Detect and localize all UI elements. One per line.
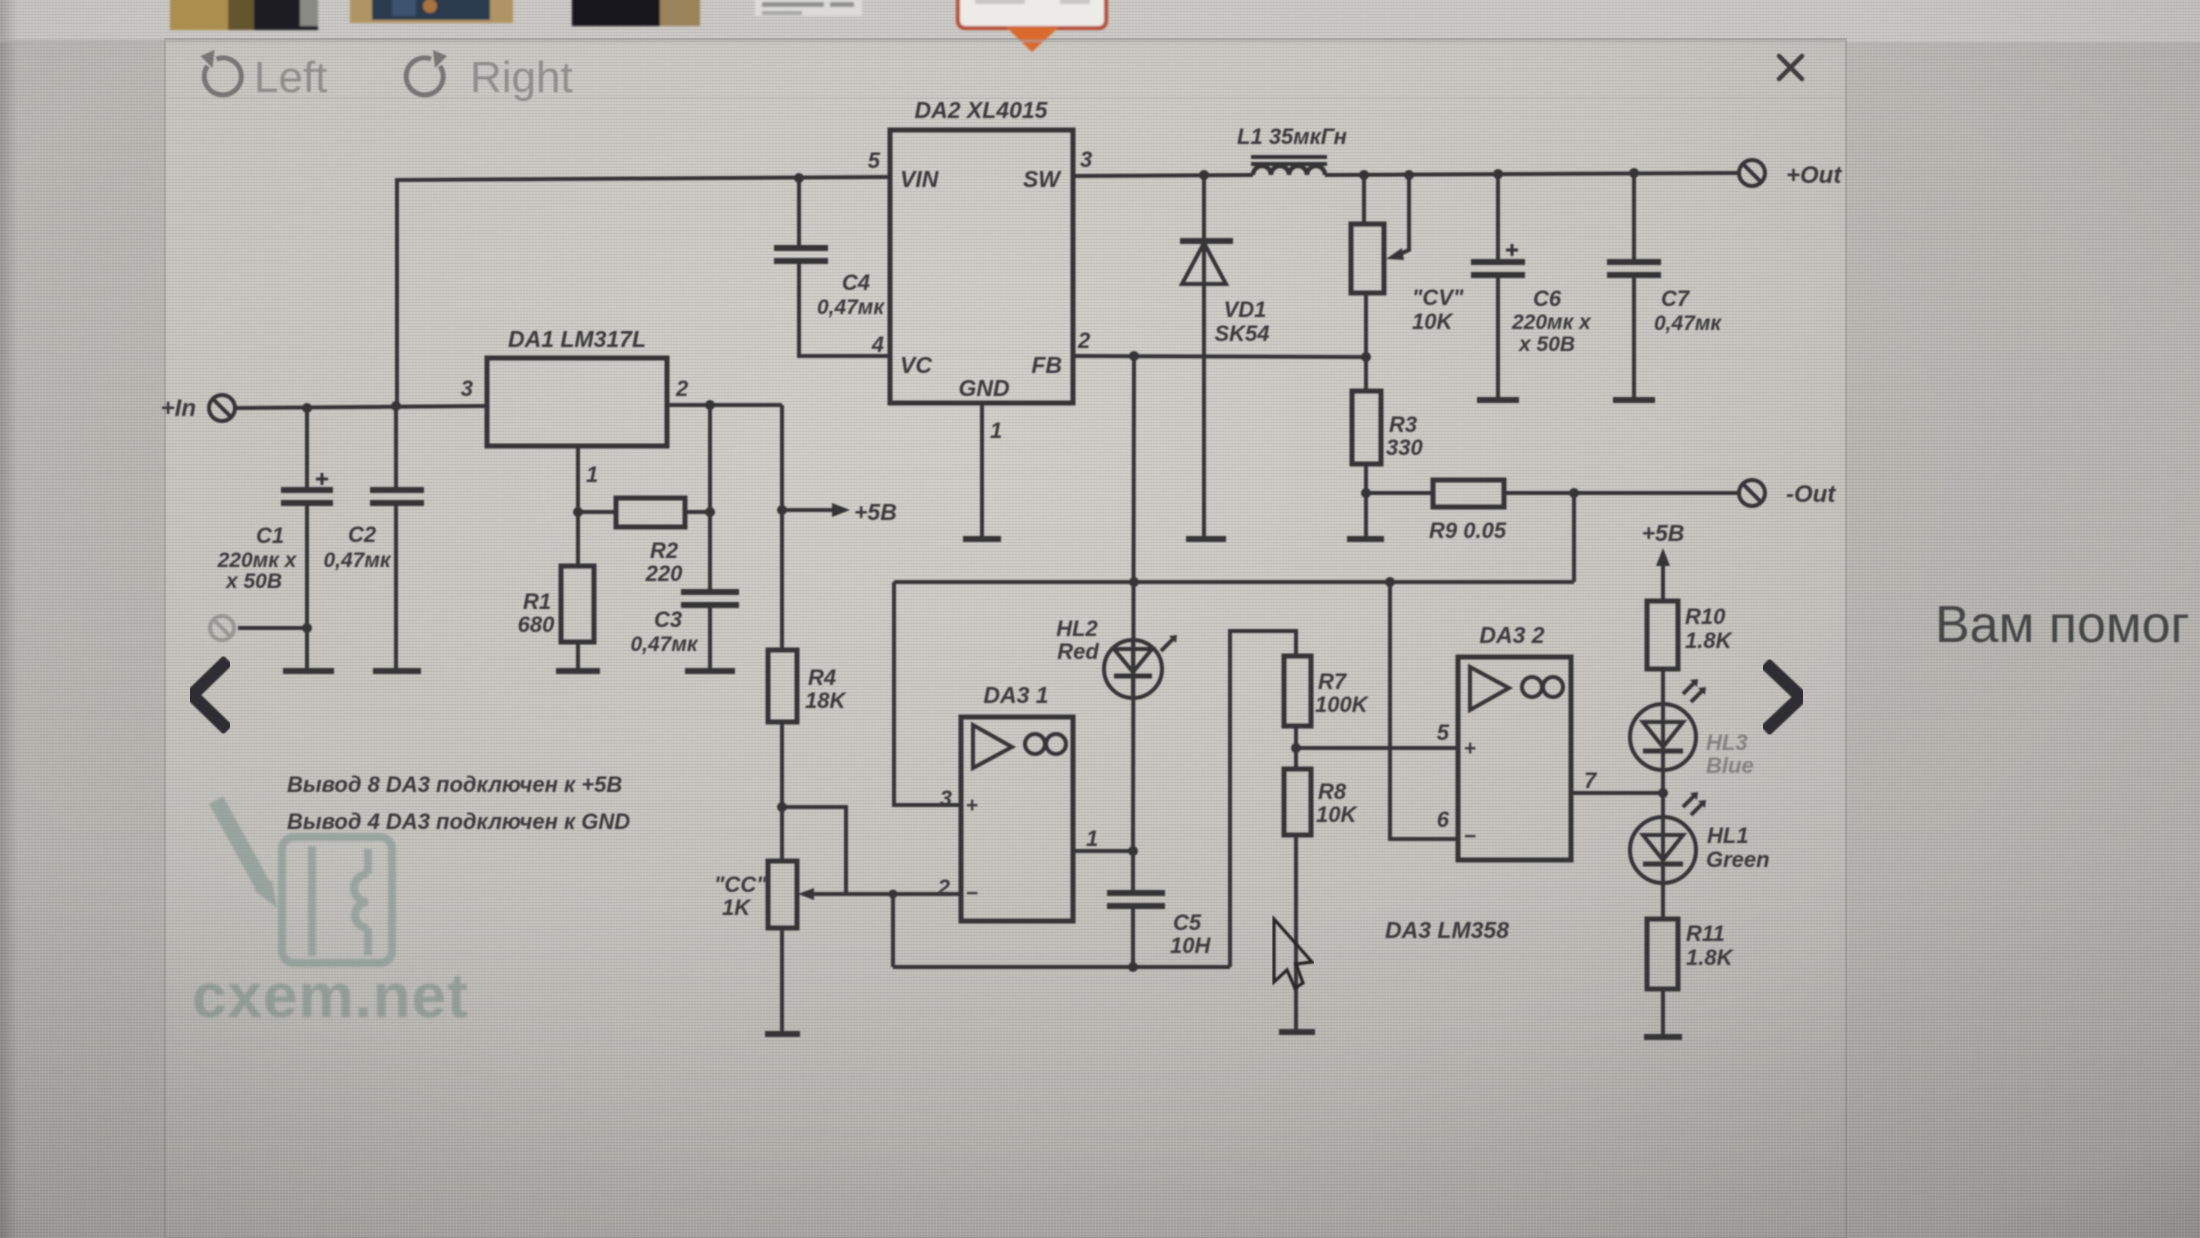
wire pin1 to R2 xyxy=(578,510,616,514)
wire input rail xyxy=(235,406,487,408)
svg-text:C1: C1 xyxy=(256,523,284,548)
resistor R2 xyxy=(616,498,685,527)
svg-text:HL3: HL3 xyxy=(1706,730,1748,755)
svg-text:0,47мк: 0,47мк xyxy=(323,549,391,572)
wire -Out drop xyxy=(1572,493,1576,582)
LED HL1 xyxy=(1630,792,1706,883)
op-amp U DA1 box xyxy=(487,358,667,446)
node C5 bottom xyxy=(1128,962,1138,972)
svg-text:220: 220 xyxy=(645,561,683,586)
svg-text:4: 4 xyxy=(871,332,884,357)
wire DA2 SW out xyxy=(1073,175,1253,176)
svg-text:5: 5 xyxy=(1437,720,1450,745)
node C4 junction xyxy=(794,173,804,183)
svg-text:1: 1 xyxy=(586,462,598,487)
svg-text:1.8K: 1.8K xyxy=(1685,628,1734,653)
svg-text:10Н: 10Н xyxy=(1170,933,1211,958)
svg-text:DA3 LM358: DA3 LM358 xyxy=(1385,917,1509,943)
svg-text:Right: Right xyxy=(470,53,573,102)
svg-text:FB: FB xyxy=(1031,352,1062,378)
wire HL1 R11 xyxy=(1661,883,1665,919)
wire DA3.2 pin7 xyxy=(1571,791,1663,795)
svg-text:"CC": "CC" xyxy=(714,872,767,897)
node -In junction xyxy=(302,623,312,633)
resistor R1 xyxy=(561,566,594,642)
resistor R8 xyxy=(1284,769,1311,835)
resistor R3 xyxy=(1352,391,1381,464)
svg-text:3: 3 xyxy=(940,786,952,811)
svg-text:VIN: VIN xyxy=(900,166,939,192)
op-amp U DA3.1 box xyxy=(961,717,1073,921)
node VD1 top xyxy=(1199,170,1209,180)
wire to DA3.2 pin5 xyxy=(1296,746,1458,750)
svg-text:220мк x: 220мк x xyxy=(217,549,298,572)
node CV top xyxy=(1359,170,1369,180)
coil box xyxy=(282,837,392,963)
svg-text:3: 3 xyxy=(1080,147,1092,172)
svg-text:3: 3 xyxy=(461,376,473,401)
svg-text:+In: +In xyxy=(161,395,196,422)
node bottom-left rail xyxy=(889,890,898,899)
svg-text:R3: R3 xyxy=(1389,412,1417,437)
wire DA1 pin2 xyxy=(667,403,782,407)
svg-text:R4: R4 xyxy=(808,665,836,690)
OVERLAY xyxy=(192,596,2200,988)
capacitor C5 xyxy=(1107,851,1165,967)
svg-text:2: 2 xyxy=(1077,328,1091,353)
ground R11 xyxy=(1644,1034,1682,1040)
wire feedback riser xyxy=(1230,631,1296,967)
wire R1 bottom xyxy=(576,642,580,671)
wire +Out rail xyxy=(1325,173,1739,175)
wire R3 top xyxy=(1364,357,1368,391)
svg-text:C5: C5 xyxy=(1173,910,1202,935)
wire R9 left xyxy=(1366,491,1433,495)
mouse cursor xyxy=(1274,919,1312,988)
svg-text:DA3 2: DA3 2 xyxy=(1479,622,1544,648)
svg-text:SW: SW xyxy=(1023,166,1062,192)
nav next arrow xyxy=(1765,663,1801,731)
potentiometer CV xyxy=(1351,175,1384,357)
node pin1 junction xyxy=(573,507,583,517)
svg-text:DA1 LM317L: DA1 LM317L xyxy=(508,326,646,352)
ground R8 xyxy=(1279,1029,1315,1035)
svg-text:6: 6 xyxy=(1437,807,1450,832)
ground CC xyxy=(765,1031,800,1037)
capacitor C6 xyxy=(1471,174,1525,400)
thumbnail 2 xyxy=(350,0,513,23)
svg-text:−: − xyxy=(966,882,978,905)
wire +5V arrow xyxy=(782,503,850,517)
svg-text:+: + xyxy=(966,794,978,817)
svg-text:220мк x: 220мк x xyxy=(1511,311,1592,334)
svg-text:2: 2 xyxy=(675,376,689,401)
svg-text:C4: C4 xyxy=(842,270,870,295)
ground VD1 xyxy=(1186,536,1226,542)
svg-text:0,47мк: 0,47мк xyxy=(817,296,885,319)
svg-text:R7: R7 xyxy=(1318,669,1348,694)
wiper arrow CC xyxy=(798,888,846,900)
ground C3 xyxy=(685,668,735,674)
node CV wiper top xyxy=(1404,170,1414,180)
wire DA1 pin1 xyxy=(576,446,580,566)
LED HL3 xyxy=(1630,679,1706,770)
viewer panel xyxy=(165,39,1846,1238)
resistor R9 xyxy=(1433,480,1504,507)
svg-text:C7: C7 xyxy=(1661,286,1691,311)
ground R1 xyxy=(556,668,600,674)
node R2C3 top xyxy=(705,400,715,410)
svg-text:GND: GND xyxy=(958,375,1009,401)
svg-text:C2: C2 xyxy=(348,522,377,547)
wire DA2 FB xyxy=(1073,356,1366,357)
wire bottom rail xyxy=(893,965,1230,969)
capacitor C2 xyxy=(370,406,424,671)
svg-text:DA3 1: DA3 1 xyxy=(983,682,1048,708)
svg-text:VC: VC xyxy=(900,352,932,378)
node FB HL2 xyxy=(1129,351,1139,361)
close X xyxy=(1779,56,1802,79)
svg-text:C6: C6 xyxy=(1533,286,1562,311)
wire CC bottom xyxy=(780,928,784,1034)
ground C1 xyxy=(283,668,334,674)
svg-text:R9 0.05: R9 0.05 xyxy=(1429,518,1507,543)
svg-text:C3: C3 xyxy=(654,607,682,632)
node mid rail HL2 xyxy=(1129,577,1139,587)
thumbnail 4 (document) xyxy=(755,0,862,16)
capacitor C4 xyxy=(774,178,890,356)
svg-text:HL2: HL2 xyxy=(1056,616,1098,641)
svg-text:L1 35мкГн: L1 35мкГн xyxy=(1237,124,1347,149)
terminal +Out xyxy=(1739,160,1765,186)
wire DA3.1 pin3 xyxy=(894,582,961,805)
wire R7 R8 xyxy=(1294,726,1298,769)
pencil xyxy=(216,800,263,886)
node -Out drop xyxy=(1569,488,1579,498)
wire HL3 HL1 xyxy=(1661,770,1665,817)
wire -Out rail xyxy=(1504,491,1739,495)
diode VD1 xyxy=(1180,175,1233,539)
wire R2 to node xyxy=(685,510,710,514)
capacitor C1 xyxy=(281,408,333,671)
thumbnail 3 xyxy=(572,0,700,26)
WATERMARK xyxy=(192,800,469,1031)
resistor R4 xyxy=(768,650,797,722)
thumbnail 5 (selected, orange border + pointer) xyxy=(958,0,1106,28)
svg-text:Left: Left xyxy=(254,53,327,102)
op-amp DA3.1 symbol xyxy=(973,725,1066,768)
svg-text:x 50В: x 50В xyxy=(1518,333,1575,356)
node C7 top xyxy=(1629,168,1639,178)
wire R11 bottom xyxy=(1661,989,1665,1037)
ground C6 xyxy=(1477,397,1519,403)
svg-text:"CV": "CV" xyxy=(1412,285,1464,310)
inductor L1 xyxy=(1251,157,1327,175)
ground R3 xyxy=(1347,536,1384,542)
terminal -In (faint) xyxy=(210,616,234,640)
svg-text:18K: 18K xyxy=(805,688,847,713)
op-amp DA3.2 symbol xyxy=(1470,667,1563,710)
terminal +In xyxy=(209,395,235,421)
wire DA3.2 pin6 xyxy=(1390,582,1458,839)
svg-text:R1: R1 xyxy=(523,589,551,614)
node R7 R8 xyxy=(1291,743,1301,753)
node C2 junction xyxy=(391,401,401,411)
svg-text:Вам помог э: Вам помог э xyxy=(1935,596,2200,654)
svg-text:R11: R11 xyxy=(1686,921,1725,946)
svg-text:Вывод 8 DA3 подключен к +5В: Вывод 8 DA3 подключен к +5В xyxy=(287,772,622,797)
op-amp U DA3.2 box xyxy=(1458,657,1571,860)
svg-text:+5В: +5В xyxy=(854,499,897,525)
svg-text:2: 2 xyxy=(937,875,951,900)
node R2C3 mid xyxy=(705,507,715,517)
svg-text:+Out: +Out xyxy=(1786,162,1842,189)
capacitor C3 xyxy=(681,405,739,671)
svg-text:100K: 100K xyxy=(1315,692,1370,717)
svg-text:Вывод 4 DA3 подключен к GND: Вывод 4 DA3 подключен к GND xyxy=(287,809,630,834)
svg-text:-Out: -Out xyxy=(1786,481,1836,508)
svg-text:Blue: Blue xyxy=(1706,753,1754,778)
LED HL2 xyxy=(1104,635,1177,698)
wire wiper to DA3.1 pin2 xyxy=(846,892,961,896)
resistor R7 xyxy=(1284,656,1311,726)
svg-text:SK54: SK54 xyxy=(1214,321,1269,346)
wire R3 bottom xyxy=(1364,464,1368,539)
TOOLBAR xyxy=(166,50,1844,102)
svg-text:0,47мк: 0,47мк xyxy=(630,633,698,656)
svg-text:DA2 XL4015: DA2 XL4015 xyxy=(915,97,1049,123)
svg-text:10K: 10K xyxy=(1316,802,1358,827)
capacitor C7 xyxy=(1607,173,1661,400)
svg-text:R2: R2 xyxy=(650,538,679,563)
node pin1 C5 xyxy=(1128,846,1138,856)
rotate-right button xyxy=(406,50,447,95)
svg-text:R10: R10 xyxy=(1685,604,1726,629)
node R4 CC tap xyxy=(777,802,787,812)
wire wiper loop xyxy=(782,807,846,894)
node +5V tap xyxy=(777,505,787,515)
svg-text:10K: 10K xyxy=(1412,309,1454,334)
svg-text:1K: 1K xyxy=(722,895,752,920)
svg-text:Red: Red xyxy=(1057,639,1099,664)
svg-text:Green: Green xyxy=(1706,847,1770,872)
wire -In to C1 xyxy=(238,626,307,630)
ground C7 xyxy=(1613,397,1655,403)
svg-text:HL1: HL1 xyxy=(1707,823,1749,848)
resistor R11 xyxy=(1647,919,1678,989)
node FB R3 xyxy=(1361,352,1371,362)
wire +5V drop xyxy=(780,405,784,650)
wire top mid rail xyxy=(894,580,1574,584)
node pin7 LED xyxy=(1658,788,1668,798)
TOPBAR xyxy=(0,0,1845,52)
wire HL2 column xyxy=(1133,356,1134,851)
resistor R10 xyxy=(1647,601,1678,669)
svg-text:1: 1 xyxy=(990,418,1002,443)
svg-text:0,47мк: 0,47мк xyxy=(1654,312,1722,335)
svg-text:330: 330 xyxy=(1386,435,1423,460)
ground C2 xyxy=(373,668,421,674)
wiper arrow CV xyxy=(1386,175,1409,260)
svg-text:−: − xyxy=(1464,825,1476,848)
wire DA3.1 pin1 xyxy=(1073,849,1133,853)
node mid rail DA3.2 xyxy=(1385,577,1395,587)
node R3 R9 xyxy=(1361,488,1371,498)
nav prev arrow xyxy=(192,660,228,730)
potentiometer CC xyxy=(768,861,797,928)
label HL3 faint xyxy=(1706,730,1754,778)
wire DA2 gnd pin1 xyxy=(980,403,984,539)
op-amp U DA2 box xyxy=(890,130,1073,403)
wire R4 to CC xyxy=(780,722,784,861)
svg-text:cxem.net: cxem.net xyxy=(192,962,469,1031)
node C1 junction xyxy=(302,403,312,413)
svg-text:x 50В: x 50В xyxy=(225,570,282,593)
svg-text:+: + xyxy=(1464,737,1476,760)
svg-text:5: 5 xyxy=(868,148,881,173)
svg-text:VD1: VD1 xyxy=(1224,297,1267,322)
svg-text:+5В: +5В xyxy=(1642,520,1685,546)
wire top feed xyxy=(397,177,890,406)
svg-text:680: 680 xyxy=(518,612,555,637)
svg-text:7: 7 xyxy=(1584,768,1598,793)
wire rail drop xyxy=(891,894,895,967)
terminal -Out xyxy=(1739,480,1765,506)
thumbnail 1 xyxy=(170,0,318,30)
node C6 top xyxy=(1493,169,1503,179)
SCHTEXT xyxy=(161,97,1843,970)
svg-text:1.8K: 1.8K xyxy=(1686,945,1735,970)
wire R10 to HL3 xyxy=(1661,669,1665,704)
wire R8 bottom xyxy=(1294,835,1298,1032)
ground DA2 xyxy=(963,536,1001,542)
wire +5V up arrow xyxy=(1656,548,1670,601)
svg-text:R8: R8 xyxy=(1318,779,1347,804)
svg-text:1: 1 xyxy=(1086,826,1098,851)
rotate-left button xyxy=(201,50,242,95)
